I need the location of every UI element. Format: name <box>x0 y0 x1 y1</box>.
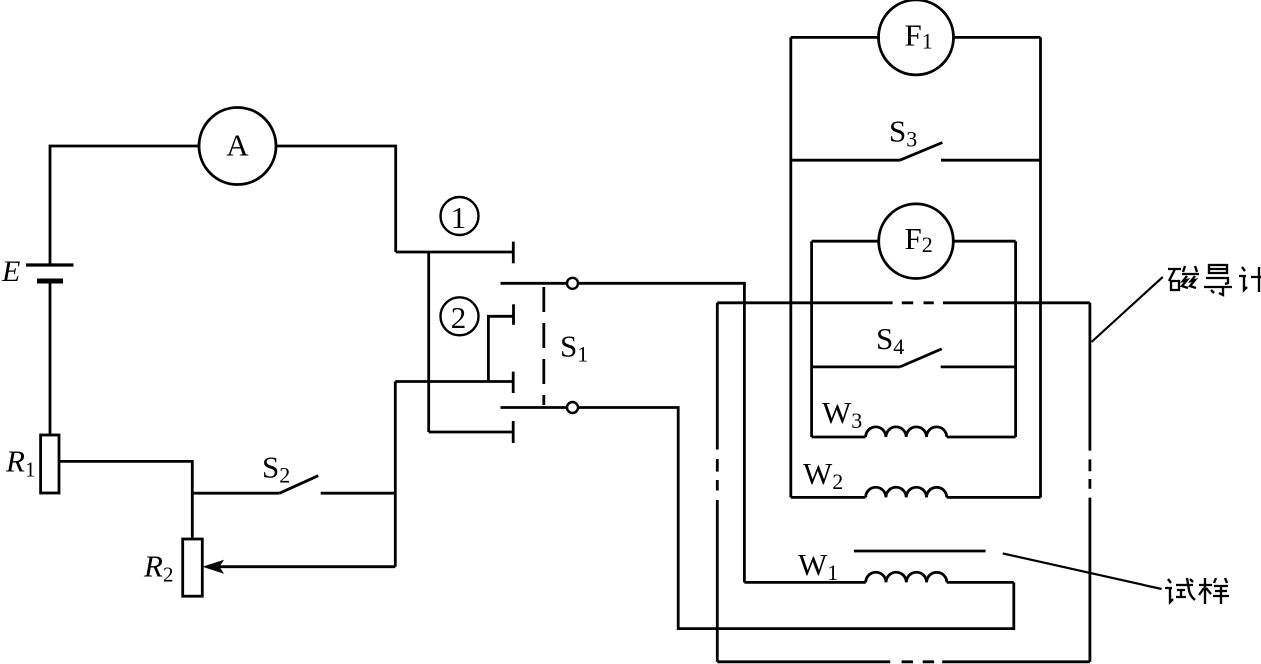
char ci (magnet) <box>1168 266 1199 290</box>
permeameter box top edge <box>717 301 1090 304</box>
wire ammeter to S1 top feed <box>276 146 396 252</box>
S1 linkage dashed <box>542 287 545 405</box>
S1 pole-2 feed wire <box>395 380 513 383</box>
winding W3 <box>812 427 1016 437</box>
S1 pole-2 arm wire to W1 right <box>501 408 1014 629</box>
switch S3 right wire <box>941 159 1041 162</box>
S1 top feed wire from ammeter <box>396 251 514 254</box>
switch S4 left wire <box>811 365 900 368</box>
F1 wires <box>791 36 1041 39</box>
char dao (guide) <box>1204 265 1232 295</box>
switch S4 right wire <box>941 365 1015 368</box>
svg-text:S1: S1 <box>560 329 588 367</box>
char shi (test) <box>1165 578 1195 602</box>
svg-text:W3: W3 <box>822 395 862 433</box>
S1 contact 2 bracket <box>488 316 513 381</box>
switch S3 blade <box>900 143 943 161</box>
resistor R1 <box>41 435 59 493</box>
F2 wires <box>812 240 1016 243</box>
wire junction down to bottom contact <box>427 252 430 432</box>
svg-text:E: E <box>1 255 20 288</box>
permeameter box right edge <box>1089 303 1092 662</box>
svg-text:S3: S3 <box>889 113 917 151</box>
fluxmeter F2 <box>879 204 954 279</box>
wire battery-bottom to R1 <box>49 281 52 435</box>
battery E long plate <box>26 263 74 266</box>
char ji (meter) <box>1239 267 1261 292</box>
R2 wiper arrowhead <box>203 560 225 574</box>
pointer line to permeameter label <box>1092 277 1163 342</box>
F2 loop right vertical <box>1014 241 1017 437</box>
svg-text:S2: S2 <box>262 450 290 488</box>
R2 wiper arrow line <box>219 565 395 568</box>
rheostat R2 <box>183 539 203 596</box>
switch S2 blade <box>280 476 319 494</box>
winding W1 <box>744 572 1013 582</box>
permeameter box left edge <box>716 303 719 662</box>
svg-text:A: A <box>226 128 249 163</box>
switch S2 left wire <box>192 492 279 495</box>
permeameter box bottom edge <box>717 660 1090 663</box>
pointer line to specimen label <box>1003 553 1162 589</box>
fluxmeter F1 <box>879 0 954 75</box>
wire battery-top up and across to ammeter <box>50 146 199 265</box>
F2 loop left vertical <box>810 241 813 437</box>
S1 contact tick (position 2) <box>512 304 515 325</box>
F1 loop right vertical <box>1039 37 1042 497</box>
S1 contact tick (position 1) <box>512 242 515 264</box>
node circle 2 <box>441 297 479 335</box>
switch S2 right wire <box>321 492 396 495</box>
S1 contact tick (pole-2 lower) <box>512 421 515 443</box>
wire R1 to R2 <box>59 461 192 539</box>
ammeter A <box>199 108 276 185</box>
S1 pole-1 arm wire to W1 left <box>501 283 745 582</box>
wire S2/R2 node up to S1 pole-2 feed <box>394 382 397 567</box>
S1 pole-1 node <box>567 278 578 289</box>
svg-text:S4: S4 <box>876 321 904 359</box>
winding W2 <box>791 487 1041 497</box>
S1 bottom contact wire <box>429 431 514 434</box>
label cidaoji (permeameter) drawn glyphs <box>1168 265 1261 295</box>
specimen bar <box>854 550 986 553</box>
label shiyang (specimen) drawn glyphs <box>1165 578 1229 604</box>
S1 contact tick (pole-2 upper) <box>512 372 515 393</box>
svg-text:R1: R1 <box>5 444 35 482</box>
switch S4 blade <box>900 349 942 367</box>
switch S3 left wire <box>791 159 900 162</box>
F1 loop left vertical <box>789 37 792 497</box>
svg-text:W2: W2 <box>803 456 843 494</box>
svg-text:2: 2 <box>451 300 467 335</box>
S1 pole-2 node <box>567 402 578 413</box>
char yang (sample) <box>1199 578 1229 604</box>
svg-text:W1: W1 <box>798 547 838 585</box>
battery E short plate <box>37 279 63 284</box>
svg-text:R2: R2 <box>143 549 173 587</box>
svg-text:1: 1 <box>451 200 467 235</box>
node circle 1 <box>441 197 479 235</box>
